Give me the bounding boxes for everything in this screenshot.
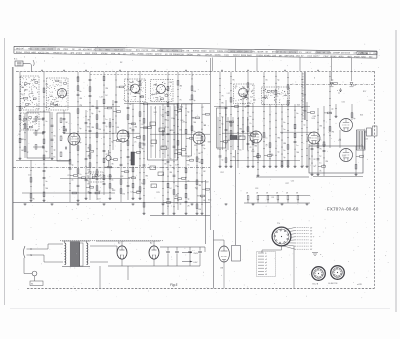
svg-text:S11: S11 [19, 139, 22, 141]
svg-text:3n: 3n [319, 170, 321, 172]
svg-text:6n: 6n [249, 116, 251, 118]
svg-text:4n: 4n [71, 180, 73, 182]
svg-text:80R3K: 80R3K [193, 51, 200, 53]
svg-text:L7: L7 [204, 125, 206, 127]
svg-text:3n: 3n [249, 132, 251, 134]
svg-text:s3: s3 [265, 259, 267, 261]
svg-text:L43: L43 [100, 97, 103, 99]
svg-text:s5: s5 [265, 265, 267, 267]
svg-text:7n: 7n [319, 139, 321, 141]
svg-text:L36: L36 [116, 127, 119, 129]
svg-text:4: 4 [206, 61, 207, 63]
svg-text:R52: R52 [221, 172, 224, 174]
svg-text:9p: 9p [71, 165, 73, 167]
svg-text:1n: 1n [296, 145, 298, 147]
svg-text:2n: 2n [134, 141, 136, 143]
svg-text:MC08: MC08 [344, 53, 350, 55]
svg-text:L: L [44, 61, 45, 63]
svg-text:8n: 8n [283, 122, 285, 124]
svg-text:P788C: P788C [138, 54, 145, 56]
svg-text:25R: 25R [180, 54, 184, 56]
svg-text:4MK: 4MK [111, 53, 116, 55]
svg-text:a: a [337, 90, 338, 92]
svg-text:S43: S43 [297, 105, 300, 107]
svg-text:L27: L27 [201, 107, 204, 109]
svg-text:S42: S42 [154, 112, 157, 114]
svg-text:8n: 8n [79, 91, 81, 93]
svg-text:C23: C23 [67, 175, 70, 177]
svg-text:1: 1 [24, 57, 25, 59]
svg-text:9n: 9n [283, 150, 285, 152]
svg-text:6p: 6p [353, 118, 355, 120]
svg-text:3p: 3p [193, 100, 195, 102]
svg-text:S47: S47 [97, 199, 100, 201]
svg-text:K8C77: K8C77 [313, 56, 320, 58]
svg-text:a-878: a-878 [357, 284, 362, 286]
svg-text:62065: 62065 [215, 55, 222, 57]
svg-text:S15: S15 [194, 145, 197, 147]
svg-text:C25: C25 [275, 96, 278, 98]
svg-text:MP1C: MP1C [306, 52, 312, 54]
svg-text:CR4MP: CR4MP [333, 52, 341, 54]
svg-text:7p: 7p [175, 115, 177, 117]
svg-text:7n: 7n [79, 174, 81, 176]
svg-text:8p: 8p [331, 80, 333, 82]
svg-text:C55: C55 [291, 181, 294, 183]
svg-text:3p: 3p [169, 165, 171, 167]
svg-text:S34: S34 [208, 142, 211, 144]
svg-text:5P0CR: 5P0CR [155, 54, 162, 56]
svg-text:C012: C012 [307, 56, 313, 58]
svg-text:54384: 54384 [187, 54, 194, 56]
svg-text:k2: k2 [265, 256, 267, 258]
svg-text:1p: 1p [26, 152, 28, 154]
svg-text:478K4: 478K4 [76, 53, 83, 55]
svg-text:S6: S6 [18, 134, 20, 136]
svg-text:S34: S34 [180, 106, 183, 108]
svg-text:C38: C38 [120, 176, 123, 178]
svg-text:L1: L1 [154, 107, 156, 109]
svg-text:a7: a7 [265, 271, 267, 273]
svg-text:B 12 B: B 12 B [313, 284, 319, 286]
svg-text:1n: 1n [21, 120, 23, 122]
svg-text:7p: 7p [303, 125, 305, 127]
svg-text:C22: C22 [28, 175, 31, 177]
svg-text:C56: C56 [341, 102, 344, 104]
svg-text:3p: 3p [283, 157, 285, 159]
svg-text:5p: 5p [141, 148, 143, 150]
svg-text:1n: 1n [175, 165, 177, 167]
svg-text:5p: 5p [79, 142, 81, 144]
svg-text:C30: C30 [130, 192, 133, 194]
svg-text:C28: C28 [170, 130, 173, 132]
svg-text:9p: 9p [221, 117, 223, 119]
svg-text:L19: L19 [108, 176, 111, 178]
svg-text:4n: 4n [111, 180, 113, 182]
svg-text:R23: R23 [140, 143, 143, 145]
svg-text:7n: 7n [249, 123, 251, 125]
svg-text:1n: 1n [105, 119, 107, 121]
svg-text:R1: R1 [189, 99, 191, 101]
svg-text:1n: 1n [319, 162, 321, 164]
svg-text:S22: S22 [253, 100, 256, 102]
svg-text:KK4P0: KK4P0 [264, 55, 271, 57]
svg-text:3n: 3n [45, 181, 47, 183]
svg-text:4p: 4p [244, 107, 246, 109]
svg-text:28RP4: 28RP4 [217, 51, 224, 53]
svg-text:6: 6 [314, 78, 315, 80]
svg-text:Fig.5: Fig.5 [170, 283, 177, 287]
svg-text:9n: 9n [187, 164, 189, 166]
svg-text:S26: S26 [360, 114, 363, 116]
svg-text:250V: 250V [194, 253, 199, 255]
svg-text:85264: 85264 [16, 52, 23, 54]
svg-text:2p: 2p [193, 131, 195, 133]
svg-text:R33: R33 [322, 145, 325, 147]
svg-text:B C: B C [14, 59, 18, 61]
svg-text:EL84 POS: EL84 POS [329, 283, 339, 285]
svg-text:6p: 6p [169, 158, 171, 160]
svg-text:C1C7K: C1C7K [142, 50, 149, 52]
svg-text:3n: 3n [45, 121, 47, 123]
svg-text:4p: 4p [98, 111, 100, 113]
svg-text:g4: g4 [265, 262, 267, 264]
svg-text:2p: 2p [331, 109, 333, 111]
svg-text:S1: S1 [31, 284, 33, 286]
svg-text:584M: 584M [201, 51, 206, 53]
svg-text:k8: k8 [265, 274, 267, 276]
svg-text:R9: R9 [77, 78, 79, 80]
svg-text:R3: R3 [272, 197, 274, 199]
svg-text:6p: 6p [45, 151, 47, 153]
svg-text:C441: C441 [224, 55, 230, 57]
svg-text:P41M: P41M [354, 56, 360, 58]
svg-text:3p: 3p [187, 198, 189, 200]
svg-text:7p: 7p [277, 151, 279, 153]
svg-text:7p: 7p [221, 160, 223, 162]
svg-text:RM: RM [152, 50, 156, 52]
svg-text:R2565: R2565 [24, 52, 31, 54]
svg-text:PKR7: PKR7 [87, 49, 93, 51]
svg-text:9p: 9p [87, 176, 89, 178]
svg-text:S12: S12 [175, 196, 178, 198]
svg-text:8n: 8n [296, 113, 298, 115]
svg-text:R48: R48 [112, 190, 115, 192]
svg-text:L53: L53 [342, 155, 345, 157]
svg-text:C33: C33 [255, 188, 258, 190]
svg-text:K5C25: K5C25 [38, 52, 45, 54]
svg-text:4573R: 4573R [257, 51, 264, 53]
svg-text:1n: 1n [265, 138, 267, 140]
svg-text:6618P: 6618P [126, 50, 133, 52]
svg-text:R25: R25 [156, 192, 159, 194]
svg-text:8p: 8p [91, 113, 93, 115]
svg-text:R35: R35 [91, 178, 94, 180]
svg-text:S43: S43 [269, 154, 272, 156]
svg-text:R16: R16 [251, 151, 254, 153]
svg-text:R27: R27 [307, 140, 310, 142]
svg-text:8n: 8n [249, 140, 251, 142]
svg-text:M30KK: M30KK [101, 53, 108, 55]
svg-text:6n: 6n [53, 157, 55, 159]
svg-text:46R8: 46R8 [338, 56, 344, 58]
svg-text:9p: 9p [221, 124, 223, 126]
svg-text:L50: L50 [136, 191, 139, 193]
svg-text:S13: S13 [312, 118, 315, 120]
svg-text:9p: 9p [277, 79, 279, 81]
svg-text:S53: S53 [202, 145, 205, 147]
svg-text:S2: S2 [120, 62, 122, 64]
svg-text:R57: R57 [363, 91, 366, 93]
svg-text:RC7K: RC7K [209, 51, 215, 53]
svg-text:17PC: 17PC [130, 53, 136, 55]
svg-text:5p: 5p [203, 148, 205, 150]
svg-text:2RK4M: 2RK4M [173, 54, 180, 56]
svg-text:C48: C48 [313, 116, 316, 118]
svg-text:g6: g6 [265, 268, 267, 270]
svg-text:L38: L38 [182, 122, 185, 124]
svg-text:2MM17: 2MM17 [233, 55, 241, 57]
svg-text:CR03M: CR03M [256, 55, 263, 57]
svg-text:C23: C23 [365, 139, 368, 141]
svg-text:S35: S35 [208, 200, 211, 202]
svg-text:L14: L14 [369, 100, 372, 102]
svg-text:R39: R39 [303, 95, 306, 97]
svg-text:f1: f1 [265, 253, 266, 255]
svg-text:4p: 4p [53, 150, 55, 152]
svg-text:C5RRC: C5RRC [146, 54, 154, 56]
svg-text:7p: 7p [105, 126, 107, 128]
svg-text:1p: 1p [319, 155, 321, 157]
svg-text:L12: L12 [227, 93, 230, 95]
svg-text:4p: 4p [179, 204, 181, 206]
svg-text:7n: 7n [277, 86, 279, 88]
svg-text:S59: S59 [353, 85, 356, 87]
svg-text:6n: 6n [239, 150, 241, 152]
svg-text:FX70?A-00-60: FX70?A-00-60 [327, 207, 359, 212]
svg-text:C31: C31 [191, 117, 194, 119]
svg-text:L13: L13 [338, 140, 341, 142]
svg-text:C43: C43 [247, 103, 250, 105]
svg-text:L43: L43 [196, 159, 199, 161]
svg-text:C26: C26 [171, 118, 174, 120]
svg-text:2p: 2p [179, 154, 181, 156]
svg-text:CP47: CP47 [323, 56, 329, 58]
svg-text:3R04: 3R04 [92, 53, 98, 55]
svg-text:S27: S27 [195, 188, 198, 190]
svg-text:L43: L43 [161, 115, 164, 117]
svg-text:1n: 1n [45, 107, 47, 109]
svg-text:8p: 8p [187, 111, 189, 113]
svg-text:S30: S30 [304, 111, 307, 113]
svg-text:9p: 9p [79, 128, 81, 130]
svg-text:C38: C38 [75, 142, 78, 144]
svg-text:5n: 5n [283, 129, 285, 131]
svg-text:7n: 7n [141, 124, 143, 126]
svg-text:R27: R27 [286, 183, 289, 185]
svg-text:CM: CM [220, 268, 223, 270]
svg-text:C41: C41 [150, 146, 153, 148]
